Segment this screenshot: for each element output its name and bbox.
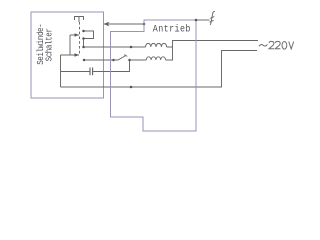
- junction dot at drive corner: [195, 19, 198, 22]
- open contact wire left: [84, 59, 114, 61]
- enclosure box Seilwinde-Schalter: [31, 12, 104, 98]
- wiper arrow upper: [70, 34, 79, 36]
- bridging contact upper (closed): [84, 31, 94, 39]
- wire wiper feed vertical: [69, 35, 71, 55]
- enclosure box Antrieb: [111, 20, 197, 131]
- wire N bottom run: [61, 51, 258, 88]
- label ~220V: [259, 44, 267, 46]
- open contact blade: [114, 55, 128, 60]
- junction dot: [130, 86, 133, 89]
- aux winding: [146, 57, 165, 60]
- capacitor C: [89, 68, 91, 76]
- wiper arrow lower: [61, 54, 80, 56]
- wire to capacitor: [61, 71, 91, 73]
- main winding: [146, 43, 167, 47]
- wire aux winding right end: [166, 47, 173, 60]
- wire capacitor to contact: [93, 60, 130, 72]
- rope take-off wire: [196, 19, 210, 21]
- label Seilwinde-Schalter: [35, 24, 55, 65]
- rope symbol: [210, 11, 215, 25]
- svg-text:Schalter: Schalter: [44, 28, 55, 61]
- wire down left: [60, 55, 62, 87]
- arrowhead at switch box: [104, 22, 110, 27]
- svg-text:Antrieb: Antrieb: [153, 23, 191, 35]
- control wire switch to drive: [104, 23, 144, 25]
- wire switch to main winding (L): [84, 39, 146, 48]
- junction dot on Antrieb edge: [143, 23, 146, 26]
- wire aux winding to contact: [130, 59, 147, 61]
- mechanical link (dashed): [79, 22, 81, 55]
- push-button actuator: [75, 17, 84, 23]
- wire winding common to supply: [167, 41, 258, 48]
